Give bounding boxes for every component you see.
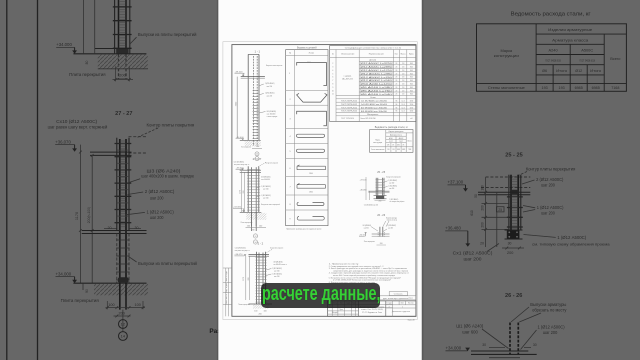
svg-text:1170: 1170 [75,212,79,220]
svg-text:Выпуски арматуры: Выпуски арматуры [530,302,566,307]
svg-text:2 - 2: 2 - 2 [258,242,264,246]
svg-text:шаг 200: шаг 200 [389,188,394,190]
bg left: label 'Плита перекрытия' (bottom) [61,298,99,303]
bg left: section title 27 - 27 [115,111,132,117]
svg-text:обрезать по месту: обрезать по месту [532,308,567,313]
bg right: label 1 (d12 А500С) см. типовую схему [524,235,611,247]
bg left: detail bubble 12 [119,310,128,332]
sheet: elevation 1 dim line [235,77,237,138]
svg-text:100: 100 [259,225,262,227]
sheet: 27-27 bottom slab and hatch [240,212,267,231]
bg left: vertical dimension lines with 1170 and 200(h-100) [75,145,93,283]
svg-text:2: 2 [332,63,333,65]
sheet: 27-27 bottom level +34.000 [233,207,245,213]
sheet: drawing frame [232,45,416,317]
sheet: 2-2 level mark [234,254,246,256]
bg right: label Выпуски арматуры обрезать по месту [511,302,567,322]
bg right: steel table title [511,12,591,18]
svg-text:шаг 200: шаг 200 [263,197,269,199]
bg right: steel consumption table [477,24,627,92]
svg-text:2800: 2800 [309,173,313,175]
sheet: 26-26 labels [359,217,397,245]
bg left: level mark +36.070 [55,139,77,152]
sheet: 27-27 detail bubbles [253,234,257,244]
bg left: level mark +34.000 (top) [56,42,77,54]
sheet: section 27-27 title [253,157,262,161]
bg right: dim 200 under section [502,247,524,255]
svg-text:10: 10 [332,90,334,92]
sheet: 2-2 bottom hatch and dims [249,304,273,316]
svg-text:Ведомость деталей: Ведомость деталей [297,46,317,50]
svg-text:доп. инженер-строитель ПГС: доп. инженер-строитель ПГС [383,298,414,300]
svg-text:610: 610 [470,210,474,216]
bg right: label Ш1 (d6 А240) шаг 600 [456,324,508,349]
svg-text:25: 25 [498,208,502,212]
svg-text:Контур плиты покрытия: Контур плиты покрытия [270,247,283,249]
sheet: 2-2 labels right [266,261,287,278]
svg-text:2 (Ø12 А500С): 2 (Ø12 А500С) [145,189,175,194]
svg-text:см. типовую схему обрамления п: см. типовую схему обрамления проема [532,242,610,247]
bg right: plain field [0,0,1,1]
sheet: specification rows [332,61,416,120]
svg-text:Контур плиты перекрытия: Контур плиты перекрытия [386,177,401,179]
sheet: small steel consumption table [370,127,413,152]
svg-text:Примечание: размеры даны по на: Примечание: размеры даны по наружным гра… [286,229,321,231]
svg-text:Ø6: Ø6 [387,145,389,147]
svg-text:шаг 200: шаг 200 [150,215,164,220]
svg-text:шаг 600: шаг 600 [364,227,369,229]
sheet: detail row 3 bent bar [290,111,327,126]
svg-text:шаг равен шагу верт. ст.: шаг равен шагу верт. ст. [235,250,250,252]
svg-text:12: 12 [256,154,258,156]
svg-text:Плита перекрытия: Плита перекрытия [364,241,375,243]
bg right: level mark +34.000 (26-26) [446,346,471,352]
svg-text:1170: 1170 [240,190,242,194]
bg left: dashed plate contour lines [129,137,147,153]
svg-text:1: 1 [402,306,403,308]
svg-text:1 (Ø12 А500С): 1 (Ø12 А500С) [265,92,275,95]
svg-text:6985: 6985 [402,149,405,151]
sheet: title block [328,301,416,316]
svg-text:100: 100 [135,303,141,307]
svg-text:+36.480: +36.480 [360,190,367,192]
svg-text:3: 3 [332,67,333,69]
bg left: bottom ground hatch [83,283,148,295]
sheet: note below parts table [286,229,321,231]
svg-text:200: 200 [481,205,485,211]
bg left: label 2 (d12 А500С) шаг 200 [128,189,176,200]
svg-text:шаг 200: шаг 200 [267,86,273,88]
svg-text:конструкции: конструкции [373,142,382,144]
sheet: elevation 1 detail bubbles [255,152,259,161]
svg-text:12: 12 [121,322,126,327]
svg-text:1 - 1: 1 - 1 [254,50,260,54]
svg-text:Согласов.: Согласов. [394,293,403,295]
svg-text:шаг 400х200 в шахм. порядке: шаг 400х200 в шахм. порядке [141,174,194,179]
svg-text:193: 193 [392,149,395,151]
bg right: 26-26 rebar outlets [510,323,518,355]
svg-text:Пров.: Пров. [339,309,344,311]
svg-text:30: 30 [135,226,139,230]
sheet: 27-27 slab double line [240,170,261,172]
sheet: detail row 4 oblong bar [290,134,325,138]
svg-text:193: 193 [542,86,548,90]
svg-text:шаг 200: шаг 200 [541,182,555,187]
bg right: label 1 (d12 А500С) шаг 200 (25-25) [523,205,564,216]
svg-text:Выпуски из плиты покрытия: Выпуски из плиты покрытия [266,65,282,67]
svg-text:Подп. и дата: Подп. и дата [226,283,228,293]
sheet: elevation 1 upper level line [241,77,265,79]
svg-text:30: 30 [508,242,512,246]
bg left: label 'Плита перекрытия' (top) [69,72,105,77]
svg-text:Арматура класса: Арматура класса [552,37,589,42]
svg-text:9: 9 [332,87,333,89]
svg-text:Выпуски из плиты перекрытий: Выпуски из плиты перекрытий [261,203,280,206]
svg-text:шаг равен шагу верт. стержней: шаг равен шагу верт. стержней [48,124,108,129]
bg left: dims 100 100 below [106,301,146,309]
svg-text:шаг 200: шаг 200 [274,270,280,272]
svg-text:Ш1 (Ø6 А240): Ш1 (Ø6 А240) [456,324,484,329]
svg-text:Ø12: Ø12 [397,145,400,147]
svg-text:ГОСТ 7473-2010: ГОСТ 7473-2010 [341,118,354,120]
svg-text:Контур плиты покрытия: Контур плиты покрытия [266,162,279,164]
svg-text:Наименование: Наименование [369,54,384,56]
bg right: slab lines 26-26 [471,351,537,358]
svg-text:200: 200 [259,314,262,316]
svg-text:Плита перекрытия: Плита перекрытия [238,304,250,306]
svg-text:Бетон В25 F150 W6: Бетон В25 F150 W6 [361,118,376,120]
bg right: label 'Контур плиты перекрытия' [515,166,575,177]
sheet: 27-27 dim lines [240,171,245,212]
svg-text:5: 5 [332,73,333,75]
svg-text:193: 193 [559,86,565,90]
sheet: detail row 1 bent bar [289,62,327,86]
svg-text:конструкции: конструкции [494,53,519,58]
bg left: 27-27 column body with rebar and ties [115,138,132,283]
bg left: dim 200 below top column [113,66,134,81]
svg-text:2 (Ø12 А500С): 2 (Ø12 А500С) [265,82,275,85]
sheet: 2-2 column body [256,252,267,304]
svg-text:ГОСТ: ГОСТ [389,141,393,143]
svg-text:200: 200 [251,230,254,232]
svg-text:6985: 6985 [575,86,583,90]
svg-text:шаг 200: шаг 200 [389,182,394,184]
bg left: dim 200 below [114,311,131,317]
svg-text:11: 11 [332,94,334,96]
sheet: detail row 2 trapezoid bar [290,93,328,102]
svg-text:А500С: А500С [581,48,593,53]
sheet: general notes text block [329,264,410,284]
svg-text:шаг 600: шаг 600 [462,329,478,334]
svg-text:Листов: Листов [408,302,414,304]
svg-text:шаг равен шагу верт. ст.: шаг равен шагу верт. ст. [234,164,250,166]
svg-text:200: 200 [248,278,250,281]
bg right: slab line 25-25 [478,192,530,195]
svg-text:Изделия арматурные: Изделия арматурные [389,131,404,133]
svg-text:1 (Ø12 А500С): 1 (Ø12 А500С) [147,210,175,215]
svg-text:Выпуски из плиты перекрытий: Выпуски из плиты перекрытий [138,261,198,266]
svg-text:Взам. инв. №: Взам. инв. № [225,294,228,305]
bg right: boxed dim 25 [496,207,504,212]
svg-text:шаг 200: шаг 200 [150,195,164,200]
sheet: specification table [330,46,416,122]
svg-text:4: 4 [332,70,333,72]
svg-text:см. типовую схему обрамл.: см. типовую схему обрамл. [390,201,405,203]
svg-text:Ø12: Ø12 [575,69,582,73]
sheet: 27-27 labels right [257,175,281,206]
sheet: format label [408,318,416,321]
svg-text:3250: 3250 [307,62,311,64]
bg right: section title 26 - 26 [505,293,522,299]
svg-text:2800: 2800 [309,191,313,193]
sheet: wall elevation 1 title [254,50,260,54]
svg-text:160: 160 [481,185,485,191]
svg-text:8: 8 [332,84,333,86]
sheet: white paper [217,0,424,360]
svg-text:шаг 200: шаг 200 [274,276,280,278]
svg-text:80: 80 [85,61,89,65]
sheet: outer margin rect [223,42,417,320]
bg left: label 'Выпуски из плиты перекрытий' (bottom) [129,257,198,266]
svg-text:ГОСТ 34028-2016: ГОСТ 34028-2016 [579,59,595,63]
svg-text:1 (Ø12 А500С): 1 (Ø12 А500С) [538,324,566,329]
svg-text:Ø6: Ø6 [542,69,547,73]
bg left: top wall column with rebar [95,0,132,79]
svg-text:Контур плиты покрытия: Контур плиты покрытия [147,123,195,128]
bg right: dim lines 25-25 left [470,177,509,247]
svg-text:6: 6 [332,77,333,79]
bg left: label 'Контур плиты покрытия' [137,123,194,138]
svg-text:Итого: Итого [590,69,601,73]
svg-text:шаг 200: шаг 200 [541,211,555,216]
sheet: detail row 9 hooked bar [290,217,325,221]
bg left: slab top line [73,53,146,55]
svg-text:200: 200 [481,222,485,228]
svg-text:Лист: Лист [401,302,405,304]
svg-text:100: 100 [247,225,250,227]
svg-text:Итого: Итого [556,69,567,73]
bg right: level mark +36.480 [445,226,470,247]
svg-text:шаг 200: шаг 200 [543,330,558,335]
svg-text:Изделия арматурные: Изделия арматурные [548,27,592,32]
svg-text:+34.000: +34.000 [56,271,72,276]
sheet: detail row 8 s-hook bar [290,203,324,207]
svg-text:+34.000: +34.000 [446,346,462,351]
svg-text:Обозначение: Обозначение [341,54,355,56]
sheet: 27-27 column body [247,166,260,226]
sheet: elevation 1 labels right [259,65,283,118]
svg-text:с докум.: с докум. [344,76,353,78]
svg-text:обрезать по месту: обрезать по месту [387,220,397,222]
svg-text:30: 30 [482,343,486,347]
sheet: parts list table 'Ведомость деталей' [286,46,328,226]
bg left: slab double line at top of 27-27 column [90,152,132,155]
svg-text:6985: 6985 [397,149,400,151]
svg-text:Масса: Масса [401,54,406,56]
svg-text:Выпуски из плиты перекрытий: Выпуски из плиты перекрытий [138,32,197,37]
svg-text:+36.070: +36.070 [55,139,71,144]
svg-text:Всего: Всего [408,141,412,143]
sheet: detail row 5 oblong bar [290,149,325,153]
svg-text:+37.100: +37.100 [360,180,367,182]
bg left: label 'Выпуски из плиты перекрытий' (top) [130,32,198,44]
bg left: label 1 (d12 А500С) шаг 200 [126,210,175,221]
svg-text:м3: м3 [410,118,412,120]
svg-text:Плита перекрытия: Плита перекрытия [241,146,251,148]
svg-text:ГОСТ: ГОСТ [399,141,403,143]
svg-text:Ведомость расхода стали, кг: Ведомость расхода стали, кг [511,12,591,18]
bg right: label 2 (d12 А500С) шаг 200 (25-25) [522,177,564,187]
svg-text:шаг 200: шаг 200 [263,188,269,190]
bg left: clipped text Ра near sheet edge [209,328,220,335]
bg right: dims 30 30 (26-26) [482,343,536,348]
sheet: detail row 6 long bar with hooks [290,165,326,175]
svg-text:Кол.: Кол. [395,54,399,56]
bg left: detail bubble 14 [119,332,128,341]
svg-text:шаг 200: шаг 200 [464,256,483,261]
svg-text:200(h-100): 200(h-100) [87,207,91,224]
svg-text:+37.100: +37.100 [448,180,464,185]
bg left: ground hatch at slab [98,55,148,69]
bg left: level mark +34.000 (bottom) [56,271,78,283]
bg left: dim extension lines from above [83,0,94,64]
svg-text:Разраб.: Разраб. [332,312,338,314]
sheet: left margin stamp cells [223,268,232,316]
svg-text:№: № [332,53,334,56]
svg-text:7: 7 [332,80,333,82]
bg left: rebar outlets through bottom slab [120,283,126,309]
svg-text:1 (Ø12 А500С): 1 (Ø12 А500С) [537,205,564,210]
bg left: column below slab (dashed outlets) [116,234,129,284]
svg-text:в шахм. порядке: в шахм. порядке [267,116,278,118]
svg-text:1170: 1170 [243,277,245,281]
svg-text:7168: 7168 [611,86,619,90]
svg-text:Стадия: Стадия [386,302,392,304]
bg right: section title 25 - 25 [505,152,522,158]
svg-text:Контур плиты перекрытия: Контур плиты перекрытия [526,166,575,171]
svg-text:20: 20 [108,226,112,230]
svg-text:Всего: Всего [610,56,620,61]
bg left: sheet frame vertical line 2 [37,0,39,360]
svg-text:Марка: Марка [375,140,380,142]
svg-text:АС-467.222: АС-467.222 [342,77,353,80]
svg-text:Плита перекрытия: Плита перекрытия [241,222,253,224]
svg-text:100: 100 [264,311,267,313]
svg-text:Формат А3: Формат А3 [408,318,416,321]
svg-text:шаг 200: шаг 200 [388,227,393,229]
bg right: label 1 (d12 А500С) шаг 200 (26-26) [521,324,566,349]
svg-text:14: 14 [255,242,257,244]
svg-text:25 - 25: 25 - 25 [377,171,385,174]
sheet: detail row 7 long bar with hooks [290,183,326,193]
bg right: label Сх1 (d12 А500С) шаг 200 [453,244,499,262]
sheet: approval cell [380,292,416,300]
sheet: 27-27 labels top [234,161,278,167]
sheet: wall elevation 1 column [248,54,259,146]
svg-text:200: 200 [119,73,126,78]
bg right: level mark +37.100 [448,180,468,192]
svg-text:90: 90 [85,289,89,293]
svg-text:27 - 27: 27 - 27 [253,157,262,161]
svg-text:Инв. № подл.: Инв. № подл. [225,270,228,281]
svg-text:200: 200 [379,201,382,203]
bg left: bottom slab line [73,277,146,283]
svg-text:200: 200 [119,311,125,315]
bg left: lower slab line of 27-27 [82,229,147,234]
svg-text:Плита перекрытия: Плита перекрытия [61,298,99,303]
svg-text:26 - 26: 26 - 26 [377,214,385,217]
svg-text:ГОСТ 34028-2016: ГОСТ 34028-2016 [545,59,561,63]
sheet: 2-2 plita label [238,304,250,306]
bg left: label Ш3 (d6 А240) шаг 400х200 [129,168,195,182]
svg-text:Ведомость расхода стали, кг: Ведомость расхода стали, кг [375,127,408,129]
svg-text:25 - 25: 25 - 25 [505,152,522,158]
svg-text:шаг 400х200: шаг 400х200 [261,179,270,181]
svg-text:шаг 200: шаг 200 [267,96,273,98]
bg right: column section block at +36.480 [505,230,523,239]
bg right: dims 20 30 near section [480,242,511,246]
bg right: 25-25 column body [507,175,523,230]
sheet: elevation 1 level mark [235,71,245,76]
bg left: sheet frame vertical line 1 [6,0,8,360]
svg-text:+34.000: +34.000 [56,42,72,47]
svg-text:1 (Ø12 А500С): 1 (Ø12 А500С) [557,235,587,240]
sheet: section 25-25 small [366,171,390,200]
svg-text:Прим.: Прим. [409,54,415,56]
svg-text:А240: А240 [549,48,559,53]
svg-text:30: 30 [533,343,537,347]
svg-text:20: 20 [480,242,484,246]
svg-text:7168: 7168 [408,149,411,151]
sheet: 2-2 labels top [235,246,283,253]
sheet: 27-27 level mark +36.070 [236,168,245,171]
subtitle caption box [261,283,381,307]
sheet: 2-2 dim lines [243,256,250,300]
bg right: dashed plate contour lines 25-25 [481,177,530,188]
svg-text:100: 100 [254,311,257,313]
sheet: section 26-26 small [372,214,390,237]
svg-text:Стены монолитные: Стены монолитные [371,149,385,151]
svg-text:200: 200 [243,191,245,194]
bg left: label Сх10 (d12 А500С) шаг равен шагу верт. стержней [48,119,108,129]
svg-text:26 - 26: 26 - 26 [505,293,522,299]
sheet: 25-25 labels [360,177,405,207]
bg left: dims 20 and 30 above lower slab [108,226,139,230]
svg-text:Дипломная студентка: Дипломная студентка [392,311,410,313]
svg-text:27-27. Ведомости. Узлы: 27-27. Ведомости. Узлы [362,312,383,314]
svg-text:193: 193 [387,149,390,151]
svg-text:Эскиз: Эскиз [309,52,314,54]
sheet: section 2-2 title [258,242,264,246]
sheet: elevation 1 bottom slab and hatch [236,137,262,148]
svg-text:100: 100 [108,303,114,307]
svg-text:200: 200 [507,251,513,255]
sheet: 2-2 slab double line [249,254,270,256]
svg-text:6985: 6985 [592,86,600,90]
svg-text:Сх1 (Ø12 А500С) шаг 200: Сх1 (Ø12 А500С) шаг 200 [364,203,378,206]
svg-text:50: 50 [474,194,478,198]
svg-text:+36.480: +36.480 [445,226,461,231]
svg-text:шаг 400х200 в шахм. п.: шаг 400х200 в шахм. п. [274,264,288,266]
svg-text:Плита перекрытия: Плита перекрытия [69,72,105,77]
svg-text:27 - 27: 27 - 27 [115,111,132,117]
svg-text:Спецификация элементов на схем: Спецификация элементов на схемы (лист 1 … [345,47,401,50]
svg-text:14: 14 [121,334,126,339]
svg-text:12: 12 [255,236,257,238]
svg-text:Стены монолитные: Стены монолитные [488,85,525,90]
